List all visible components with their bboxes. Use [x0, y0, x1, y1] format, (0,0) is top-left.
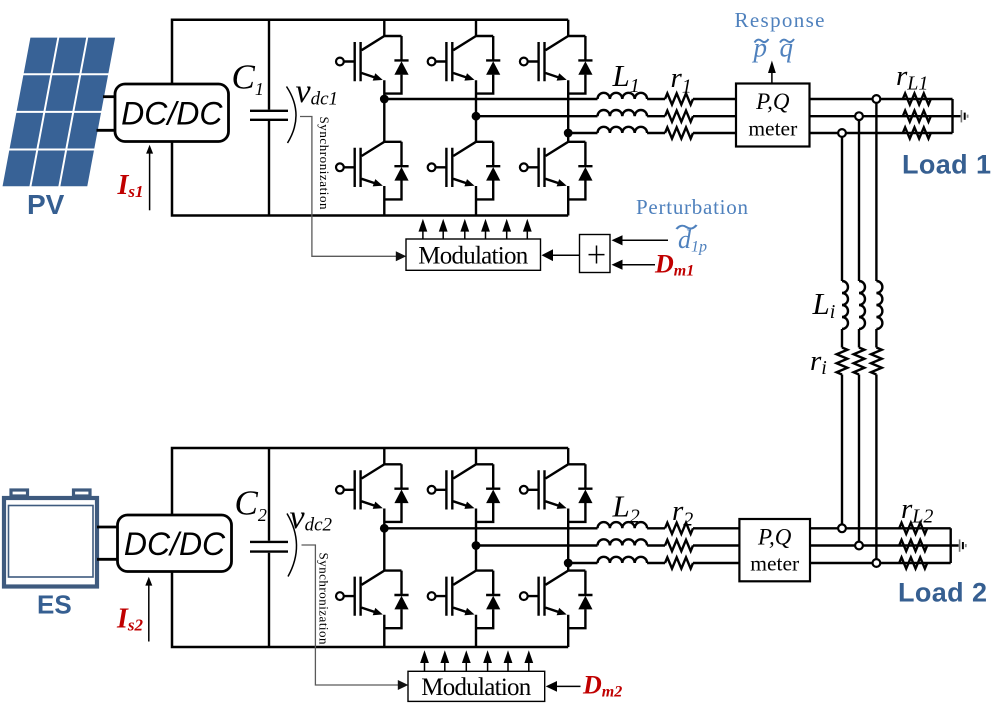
resistor r2 phase C — [665, 557, 693, 568]
IGBT Q13 with antiparallel diode — [428, 36, 501, 94]
svg-text:DC/DC: DC/DC — [124, 526, 226, 562]
source current Is1 arrow — [149, 154, 151, 211]
tap node line A2 — [838, 524, 846, 532]
resistor rL2 phase B — [899, 540, 927, 551]
summing junction box — [580, 235, 611, 273]
wire: d1p perturbation input arrow — [621, 239, 668, 241]
svg-text:Is2: Is2 — [116, 604, 144, 635]
resistor ri right — [871, 348, 882, 375]
response p tilde label — [755, 39, 769, 43]
svg-text:P,Q: P,Q — [755, 89, 790, 114]
ground symbol load 2 — [959, 539, 961, 551]
resistor r2 phase B — [665, 540, 693, 551]
DC/DC converter U2 — [118, 515, 232, 572]
svg-text:p: p — [752, 33, 768, 63]
wire: tie line left conductor — [841, 137, 843, 525]
inductor L2 phase A — [598, 522, 648, 528]
vdc2 measurement brace — [287, 514, 297, 577]
IGBT Q21 with antiparallel diode — [336, 464, 409, 522]
IGBT Q15 with antiparallel diode — [520, 36, 593, 94]
svg-text:vdc2: vdc2 — [290, 499, 333, 536]
junction node phase A2 — [380, 524, 389, 533]
arrowhead into Modulation 1 — [396, 251, 407, 261]
wire: tie line right conductor — [875, 103, 877, 560]
wire: PV to DC/DC upper — [103, 95, 116, 98]
svg-text:DC/DC: DC/DC — [121, 96, 223, 132]
tap node line B — [855, 112, 863, 120]
response measurement arrow — [771, 72, 773, 84]
tap node line C — [838, 129, 846, 137]
wire: meter 1 to load 1 lines — [810, 99, 953, 133]
wire: phase C line to filter — [568, 132, 597, 134]
inductor Li middle — [859, 281, 865, 329]
wire: inverter 2 leg C vertical segments — [567, 448, 569, 647]
svg-text:Response: Response — [735, 8, 825, 32]
tap node line B2 — [855, 542, 863, 550]
wire: phase B2 line to filter — [476, 544, 598, 546]
Modulation 2 box — [408, 671, 545, 701]
source current Is2 arrow — [148, 585, 150, 642]
svg-text:Is1: Is1 — [117, 170, 144, 201]
resistor rL1 phase B — [903, 111, 931, 122]
response q tilde label — [780, 39, 794, 43]
svg-text:meter: meter — [750, 552, 799, 576]
ground symbol load 1 — [960, 110, 962, 122]
IGBT Q11 with antiparallel diode — [336, 36, 409, 94]
svg-text:Modulation: Modulation — [418, 243, 529, 270]
wire: L2 to r2 links — [647, 528, 665, 563]
junction node phase B2 — [472, 541, 481, 550]
resistor r1 phase B — [665, 111, 693, 122]
svg-text:Synchronization: Synchronization — [317, 553, 332, 646]
wire: phase A line to filter — [384, 98, 597, 100]
inductor Li right — [876, 281, 882, 329]
svg-text:Perturbation: Perturbation — [636, 195, 749, 219]
svg-text:Dm1: Dm1 — [654, 250, 694, 280]
svg-text:L2: L2 — [612, 489, 640, 528]
svg-text:d1p: d1p — [678, 225, 707, 256]
inductor L2 phase B — [598, 539, 648, 545]
resistor r2 phase A — [665, 523, 693, 534]
svg-text:Modulation: Modulation — [421, 674, 532, 701]
inductor L2 phase C — [598, 557, 648, 563]
tap node line A — [873, 95, 881, 103]
svg-text:ES: ES — [37, 590, 72, 620]
wire: ES to DC/DC lower — [97, 558, 119, 561]
IGBT Q24 with antiparallel diode — [428, 571, 501, 629]
converter 2 DC-link frame — [172, 448, 568, 647]
svg-text:rL1: rL1 — [896, 60, 928, 95]
wire: phase B line to filter — [476, 115, 598, 117]
gate drive arrows 1 — [419, 219, 532, 239]
svg-text:q: q — [780, 33, 794, 63]
resistor rL1 phase C — [903, 127, 931, 138]
wire: inverter 2 leg A vertical segments — [383, 448, 385, 647]
wire: meter 2 to load 2 lines — [810, 528, 951, 563]
converter 1 DC-link frame — [172, 20, 568, 216]
IGBT Q26 with antiparallel diode — [520, 571, 593, 629]
capacitor C2 plates — [250, 542, 288, 552]
IGBT Q16 with antiparallel diode — [520, 142, 593, 200]
svg-text:vdc1: vdc1 — [296, 73, 339, 110]
wire: C1 branch lower segment — [268, 121, 270, 216]
wire: C2 branch lower segment — [268, 553, 270, 647]
junction node phase C1 — [564, 129, 573, 138]
inductor L1 phase B — [598, 110, 648, 116]
svg-text:rL2: rL2 — [901, 493, 933, 528]
wire: phase C2 line to filter — [568, 562, 597, 564]
svg-text:Dm2: Dm2 — [582, 671, 622, 701]
wire: tie line middle conductor — [858, 120, 860, 542]
wire: r2 to PQ meter 2 — [693, 528, 739, 563]
Modulation 1 box — [406, 239, 541, 270]
DC/DC converter U1 — [115, 84, 229, 142]
wire: C2 branch upper segment — [268, 448, 270, 541]
svg-text:Synchronization: Synchronization — [317, 117, 332, 211]
PV solar panel — [3, 38, 116, 187]
wire: C1 branch upper segment — [268, 20, 270, 110]
svg-text:Load 2: Load 2 — [898, 578, 987, 608]
inductor Li left — [842, 281, 848, 329]
svg-text:P,Q: P,Q — [757, 525, 792, 550]
wire: synchronization signal 1 (grey) — [300, 117, 399, 257]
IGBT Q23 with antiparallel diode — [428, 464, 501, 522]
svg-text:Load 1: Load 1 — [902, 150, 991, 180]
IGBT Q14 with antiparallel diode — [428, 142, 501, 200]
wire: Dm1 input arrow — [621, 264, 655, 266]
wire: synchronization signal 2 (grey) — [302, 545, 401, 685]
junction node phase B1 — [472, 112, 481, 121]
svg-text:ri: ri — [810, 345, 827, 379]
wire: inverter 1 leg A vertical segments — [383, 20, 385, 216]
ES battery symbol — [4, 490, 97, 587]
wire: Dm2 input arrow — [556, 685, 581, 687]
wire: inverter 1 leg C vertical segments — [567, 20, 569, 216]
IGBT Q25 with antiparallel diode — [520, 464, 593, 522]
resistor ri middle — [854, 348, 865, 375]
svg-text:meter: meter — [748, 117, 797, 141]
junction node phase C2 — [564, 559, 573, 568]
capacitor C1 plates — [250, 111, 288, 120]
wire: inverter 2 leg B vertical segments — [475, 448, 477, 647]
junction node phase A1 — [380, 95, 389, 104]
tap node line C2 — [873, 559, 881, 567]
wire: r1 to PQ meter 1 — [693, 99, 736, 133]
wire: phase A2 line to filter — [384, 527, 597, 529]
resistor r1 phase A — [665, 93, 693, 104]
svg-text:r1: r1 — [671, 62, 692, 98]
svg-text:C1: C1 — [232, 58, 264, 100]
resistor ri left — [837, 348, 848, 375]
svg-text:L1: L1 — [612, 58, 640, 97]
wire: load 1 neutral bus — [953, 99, 961, 133]
inductor L1 phase A — [598, 93, 648, 99]
PQ meter 2 box — [739, 519, 810, 581]
inductor L1 phase C — [598, 127, 648, 133]
svg-text:PV: PV — [27, 189, 65, 220]
IGBT Q22 with antiparallel diode — [336, 571, 409, 629]
resistor rL2 phase A — [899, 523, 927, 534]
svg-text:C2: C2 — [235, 484, 267, 526]
resistor rL1 phase A — [903, 93, 931, 104]
arrowhead into Modulation 2 — [398, 680, 409, 690]
resistor r1 phase C — [665, 127, 693, 138]
resistor rL2 phase C — [899, 557, 927, 568]
svg-text:Li: Li — [812, 286, 836, 323]
svg-text:r2: r2 — [672, 495, 693, 531]
gate drive arrows 2 — [420, 650, 533, 671]
d1p tilde label — [677, 225, 697, 229]
wire: L1 to r1 links — [647, 99, 665, 133]
PQ meter 1 box — [736, 84, 810, 147]
IGBT Q12 with antiparallel diode — [336, 142, 409, 200]
wire: summing to Modulation 1 — [552, 254, 580, 256]
wire: PV to DC/DC lower — [97, 129, 117, 132]
wire: load 2 neutral bus — [951, 528, 959, 563]
wire: inverter 1 leg B vertical segments — [475, 20, 477, 216]
wire: ES to DC/DC upper — [97, 526, 119, 529]
vdc1 measurement brace — [287, 87, 297, 144]
